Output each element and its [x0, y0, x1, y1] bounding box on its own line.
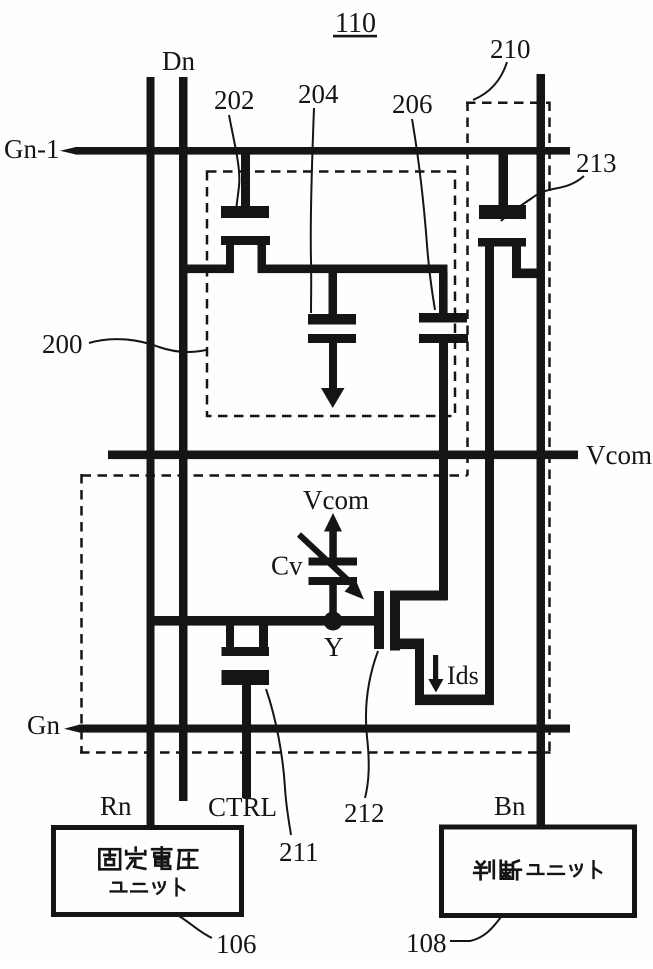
wire leader 213 — [501, 176, 584, 221]
svg-text:Y: Y — [324, 632, 344, 662]
wire CTRL 211 gate stub — [242, 684, 251, 798]
svg-text:Ids: Ids — [447, 661, 479, 690]
label kanji fixed-voltage-unit line1 固定電圧 — [99, 847, 197, 869]
svg-text:106: 106 — [216, 929, 257, 959]
wire leader 202 — [229, 115, 239, 207]
node Y junction dot — [324, 612, 343, 631]
power Vcom up arrow — [324, 513, 342, 558]
node Gn-1 scan line — [60, 147, 570, 155]
svg-text:Vcom: Vcom — [586, 440, 652, 470]
svg-text:Gn: Gn — [27, 710, 60, 740]
svg-text:Bn: Bn — [494, 791, 526, 821]
node Vcom line — [108, 451, 578, 460]
wire leader 106 — [179, 916, 212, 938]
label kanji fixed-voltage-unit line2 ユニット — [111, 879, 184, 896]
transistor 202 — [221, 154, 270, 268]
svg-text:211: 211 — [279, 837, 319, 867]
svg-text:108: 108 — [406, 928, 447, 958]
svg-text:200: 200 — [42, 329, 83, 359]
wire 202 source to Dn — [183, 265, 234, 274]
label 110 — [333, 8, 377, 39]
svg-text:212: 212 — [344, 798, 385, 828]
wire 212 source — [395, 639, 494, 706]
wire Bn vertical line — [537, 74, 546, 827]
capacitor Cv — [309, 558, 358, 617]
svg-text:213: 213 — [576, 148, 617, 178]
svg-text:206: 206 — [392, 89, 433, 119]
svg-text:Gn-1: Gn-1 — [4, 134, 60, 164]
wire Rn vertical line — [147, 77, 155, 827]
wire leader 108 — [450, 917, 501, 941]
wire leader 200 — [89, 339, 206, 352]
wire leader 212 — [365, 651, 378, 798]
wire Y horizontal from Rn to 212 gate — [147, 616, 375, 626]
label kanji judgement-unit 判断ユニット — [474, 861, 521, 880]
svg-text:204: 204 — [298, 79, 339, 109]
svg-text:110: 110 — [335, 8, 376, 39]
svg-text:CTRL: CTRL — [208, 792, 277, 822]
wire 213 drain to Bn — [512, 269, 545, 279]
svg-text:Dn: Dn — [162, 46, 195, 76]
transistor 211 — [222, 625, 270, 685]
svg-text:Vcom: Vcom — [303, 485, 369, 515]
capacitor Cv variable arrow — [299, 535, 364, 600]
wire leader 206 — [412, 119, 435, 310]
svg-text:210: 210 — [490, 34, 531, 64]
wire leader 211 — [266, 689, 291, 835]
capacitor 206 — [419, 273, 468, 343]
svg-text:Cv: Cv — [271, 551, 303, 581]
svg-text:202: 202 — [214, 85, 255, 115]
node Gn scan line — [64, 725, 570, 733]
transistor 213 — [478, 154, 526, 270]
current Ids arrow — [428, 655, 443, 693]
dashed box lower detection unit — [80, 474, 551, 753]
wire 212 drain — [395, 591, 448, 601]
box 106 fixed voltage unit — [54, 828, 242, 915]
ground arrow below 204 — [321, 343, 345, 408]
svg-text:Rn: Rn — [100, 791, 132, 821]
transistor 212 — [374, 591, 400, 651]
wire leader 210 — [473, 62, 507, 100]
dashed box 210 — [466, 102, 550, 753]
dashed box 200 — [207, 172, 455, 417]
wire capacitor 206 bottom to transistor 212 drain — [439, 343, 448, 600]
box 108 judgement unit — [442, 827, 635, 916]
capacitor 204 — [308, 273, 356, 343]
wire Dn vertical line — [179, 77, 188, 801]
wire 202 drain to capacitors — [258, 265, 448, 274]
wire leader 204 — [311, 108, 314, 313]
wire 213 source down line — [485, 246, 494, 705]
